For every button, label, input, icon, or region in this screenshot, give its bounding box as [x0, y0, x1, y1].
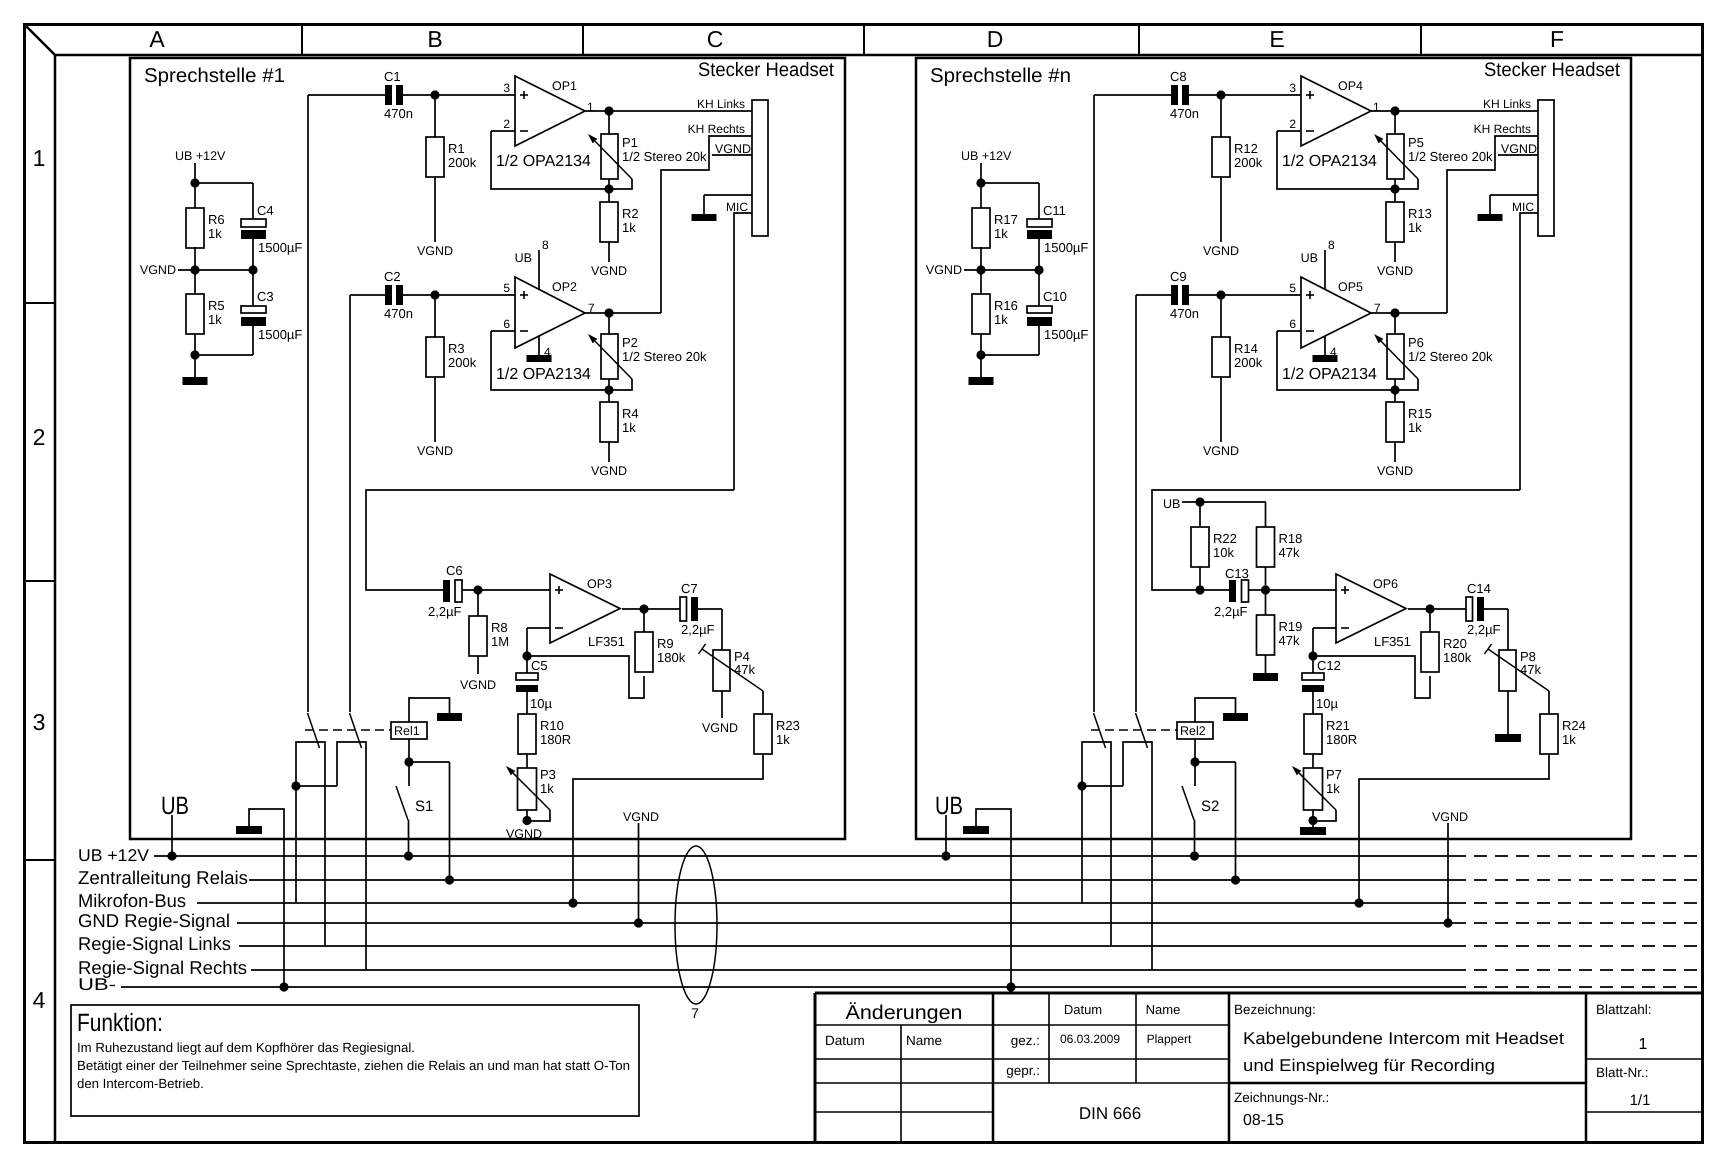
resistor R2: [600, 189, 639, 242]
svg-text:R8: R8: [491, 620, 508, 635]
wire: [350, 290, 515, 712]
svg-text:VGND: VGND: [591, 464, 627, 478]
svg-text:F: F: [1550, 26, 1564, 52]
svg-text:VGND: VGND: [1377, 464, 1413, 478]
svg-text:Zentralleitung Relais: Zentralleitung Relais: [78, 867, 248, 888]
label KH Links: [1483, 97, 1531, 111]
svg-text:C6: C6: [446, 563, 463, 578]
node VGND: [417, 377, 453, 458]
node VGND tie: [623, 810, 659, 928]
capacitor C1: [384, 69, 413, 121]
svg-text:47k: 47k: [1279, 545, 1300, 560]
svg-text:VGND: VGND: [1203, 244, 1239, 258]
wire: [585, 136, 752, 318]
ground: [437, 713, 462, 721]
svg-text:P5: P5: [1408, 135, 1424, 150]
bus GND Regie-Signal: [78, 910, 1700, 931]
svg-text:2: 2: [33, 424, 46, 450]
node UB: [1163, 497, 1266, 511]
op-amp OP4: [1282, 76, 1380, 170]
svg-text:C4: C4: [257, 203, 274, 218]
svg-text:VGND: VGND: [715, 142, 751, 156]
wire: [1371, 136, 1538, 318]
svg-text:R16: R16: [994, 298, 1018, 313]
node UB +12V: [961, 149, 1012, 188]
wire: [434, 95, 436, 137]
node VGND: [1377, 442, 1413, 478]
svg-text:3: 3: [33, 709, 46, 735]
potentiometer P6: [1374, 313, 1493, 390]
svg-text:B: B: [427, 26, 442, 52]
svg-text:6: 6: [503, 317, 510, 331]
svg-text:OP1: OP1: [552, 79, 577, 93]
node UB: [935, 792, 963, 861]
svg-text:1/2 OPA2134: 1/2 OPA2134: [1282, 366, 1377, 383]
svg-text:C3: C3: [257, 289, 274, 304]
title col Datum: [1064, 1002, 1102, 1017]
ground: [1223, 713, 1248, 721]
connector headset: [1538, 100, 1554, 236]
svg-text:1k: 1k: [622, 420, 636, 435]
node VGND: [506, 827, 542, 841]
title DIN 666: [1079, 1104, 1141, 1123]
wire: [491, 331, 632, 395]
svg-text:OP2: OP2: [552, 280, 577, 294]
svg-text:OP5: OP5: [1338, 280, 1363, 294]
label Stecker Headset: [698, 59, 835, 81]
svg-text:Kabelgebundene Intercom mit He: Kabelgebundene Intercom mit Headset: [1243, 1029, 1564, 1048]
svg-text:C9: C9: [1170, 269, 1187, 284]
svg-text:R2: R2: [622, 206, 639, 221]
svg-text:2,2µF: 2,2µF: [1214, 604, 1248, 619]
svg-text:VGND: VGND: [1501, 142, 1537, 156]
svg-text:180R: 180R: [540, 732, 571, 747]
svg-text:R23: R23: [776, 718, 800, 733]
wire: [308, 90, 515, 712]
svg-text:47k: 47k: [734, 662, 755, 677]
resistor R16: [972, 294, 1018, 334]
svg-text:Datum: Datum: [825, 1033, 865, 1048]
svg-text:C1: C1: [384, 69, 401, 84]
svg-text:Datum: Datum: [1064, 1002, 1102, 1017]
svg-text:C5: C5: [531, 658, 548, 673]
svg-text:P2: P2: [622, 335, 638, 350]
wire: [190, 326, 253, 377]
relay contact 2 Rel2: [1123, 713, 1152, 970]
svg-text:KH Links: KH Links: [697, 97, 745, 111]
wire MIC to amp: [366, 490, 734, 590]
svg-text:DIN 666: DIN 666: [1079, 1104, 1141, 1123]
svg-text:VGND: VGND: [417, 444, 453, 458]
wire: [1077, 781, 1123, 790]
svg-text:UB: UB: [1163, 497, 1180, 511]
potentiometer P4: [699, 644, 764, 691]
wire: [1308, 628, 1430, 698]
node UB +12V: [175, 149, 226, 188]
switch S1: [396, 762, 433, 861]
label MIC: [726, 200, 748, 214]
svg-text:R15: R15: [1408, 406, 1432, 421]
node VGND: [140, 263, 258, 277]
svg-text:1k: 1k: [622, 220, 636, 235]
title block grid: [815, 993, 1703, 1143]
svg-text:OP3: OP3: [587, 577, 612, 591]
relay contact 1 Rel1: [296, 713, 325, 946]
label Stecker Headset: [1484, 59, 1621, 81]
title row Name: [906, 1033, 942, 1048]
capacitor C14: [1466, 581, 1501, 637]
wire: [1277, 131, 1418, 194]
svg-text:1/2 OPA2134: 1/2 OPA2134: [496, 366, 591, 383]
wire: [1220, 95, 1222, 137]
svg-text:R20: R20: [1443, 636, 1467, 651]
svg-text:UB: UB: [515, 251, 532, 265]
wire: [1190, 739, 1240, 885]
svg-text:Blattzahl:: Blattzahl:: [1596, 1002, 1652, 1017]
wire: [568, 754, 763, 908]
connector headset: [752, 100, 768, 236]
row ticks: [24, 303, 55, 860]
svg-text:UB +12V: UB +12V: [78, 846, 150, 865]
svg-text:1k: 1k: [1326, 781, 1340, 796]
svg-text:VGND: VGND: [926, 263, 962, 277]
title name Plappert: [1147, 1032, 1192, 1046]
svg-text:C12: C12: [1317, 658, 1341, 673]
svg-text:R9: R9: [657, 636, 674, 651]
svg-text:1k: 1k: [1408, 420, 1422, 435]
capacitor C10: [1027, 289, 1088, 342]
wire: [1220, 295, 1222, 337]
svg-text:200k: 200k: [1234, 155, 1263, 170]
svg-text:Änderungen: Änderungen: [846, 1002, 963, 1024]
svg-text:1M: 1M: [491, 634, 509, 649]
title row Datum: [825, 1033, 865, 1048]
svg-text:Funktion:: Funktion:: [77, 1009, 163, 1037]
svg-text:Zeichnungs-Nr.:: Zeichnungs-Nr.:: [1234, 1090, 1329, 1105]
node VGND: [1203, 177, 1239, 258]
title gepr: [1006, 1063, 1040, 1078]
capacitor C12: [1302, 656, 1341, 714]
potentiometer P8: [1485, 644, 1550, 691]
svg-text:1500µF: 1500µF: [258, 327, 302, 342]
svg-text:470n: 470n: [384, 106, 413, 121]
svg-text:KH Links: KH Links: [1483, 97, 1531, 111]
svg-text:6: 6: [1289, 317, 1296, 331]
svg-text:R13: R13: [1408, 206, 1432, 221]
node VGND: [591, 442, 627, 478]
svg-text:1/2 Stereo 20k: 1/2 Stereo 20k: [1408, 149, 1493, 164]
svg-text:Sprechstelle #n: Sprechstelle #n: [930, 65, 1071, 87]
svg-text:KH Rechts: KH Rechts: [1474, 122, 1531, 136]
wire: [1136, 290, 1301, 712]
note line 3: [77, 1076, 204, 1091]
svg-text:200k: 200k: [1234, 355, 1263, 370]
wire: [409, 698, 450, 722]
svg-text:1500µF: 1500µF: [1044, 240, 1088, 255]
wire: [1195, 698, 1236, 722]
station box Sprechstelle #n: [916, 58, 1631, 839]
label Sprechstelle #1: [144, 65, 285, 87]
svg-text:OP4: OP4: [1338, 79, 1363, 93]
op-amp OP1: [496, 76, 594, 170]
op-amp OP3: [550, 574, 625, 649]
svg-text:VGND: VGND: [1377, 264, 1413, 278]
svg-text:1/2 Stereo 20k: 1/2 Stereo 20k: [622, 149, 707, 164]
svg-text:1k: 1k: [208, 312, 222, 327]
svg-text:C13: C13: [1225, 566, 1249, 581]
svg-text:R5: R5: [208, 298, 225, 313]
resistor R13: [1386, 189, 1432, 242]
wire: [976, 326, 1039, 377]
wire: [1484, 609, 1508, 650]
potentiometer P3: [506, 754, 556, 825]
title sheets 1: [1639, 1036, 1648, 1053]
svg-text:470n: 470n: [1170, 306, 1199, 321]
node VGND: [417, 177, 453, 258]
label Sprechstelle #n: [930, 65, 1071, 87]
svg-text:gepr.:: gepr.:: [1006, 1063, 1040, 1078]
svg-text:Betätigt einer der Teilnehmer: Betätigt einer der Teilnehmer seine Spre…: [77, 1058, 630, 1073]
svg-text:S2: S2: [1201, 798, 1219, 815]
svg-text:C2: C2: [384, 269, 401, 284]
svg-text:UB: UB: [935, 792, 963, 820]
capacitor C2: [384, 269, 413, 321]
svg-text:1/2 OPA2134: 1/2 OPA2134: [496, 153, 591, 170]
svg-text:1k: 1k: [208, 226, 222, 241]
resistor R21: [1304, 714, 1357, 754]
svg-text:OP6: OP6: [1373, 577, 1398, 591]
capacitor C6: [428, 563, 463, 619]
ground: [183, 377, 208, 385]
wire MIC: [734, 213, 752, 490]
label KH Links: [697, 97, 745, 111]
svg-text:4: 4: [33, 987, 46, 1013]
resistor R22: [1191, 502, 1237, 595]
svg-text:UB +12V: UB +12V: [175, 149, 226, 163]
potentiometer P7: [1292, 754, 1342, 825]
wire: [195, 183, 253, 219]
svg-text:1/2 OPA2134: 1/2 OPA2134: [1282, 153, 1377, 170]
resistor R17: [972, 208, 1018, 248]
wire: [981, 239, 1039, 306]
svg-text:180R: 180R: [1326, 732, 1357, 747]
svg-text:5: 5: [503, 281, 510, 295]
node VGND: [591, 242, 627, 278]
svg-text:470n: 470n: [1170, 106, 1199, 121]
title 1/1: [1630, 1092, 1651, 1109]
svg-text:1k: 1k: [540, 781, 554, 796]
svg-text:1k: 1k: [776, 732, 790, 747]
svg-text:C10: C10: [1043, 289, 1067, 304]
wire: [1354, 754, 1549, 908]
wire MIC to amp: [1152, 490, 1520, 590]
svg-text:200k: 200k: [448, 155, 477, 170]
svg-text:Regie-Signal Links: Regie-Signal Links: [78, 933, 231, 954]
relay contact 2 Rel1: [337, 713, 366, 970]
ground: [1300, 821, 1326, 835]
svg-text:Plappert: Plappert: [1147, 1032, 1192, 1046]
svg-text:UB: UB: [161, 792, 189, 820]
svg-text:Blatt-Nr.:: Blatt-Nr.:: [1596, 1065, 1649, 1080]
resistor R18: [1257, 502, 1303, 595]
svg-text:VGND: VGND: [623, 810, 659, 824]
capacitor C13: [1214, 566, 1249, 619]
resistor R6: [186, 208, 225, 248]
svg-text:Sprechstelle #1: Sprechstelle #1: [144, 65, 285, 87]
svg-text:2: 2: [503, 117, 510, 131]
svg-text:VGND: VGND: [140, 263, 176, 277]
svg-text:8: 8: [1328, 238, 1335, 252]
svg-text:P3: P3: [540, 767, 556, 782]
svg-text:R12: R12: [1234, 141, 1258, 156]
svg-text:Stecker Headset: Stecker Headset: [698, 59, 835, 81]
svg-text:P1: P1: [622, 135, 638, 150]
capacitor C4: [241, 203, 302, 255]
svg-text:VGND: VGND: [417, 244, 453, 258]
svg-text:VGND: VGND: [1203, 444, 1239, 458]
op-amp OP5: [1282, 277, 1381, 383]
power pin 4 OP5: [1313, 336, 1338, 362]
svg-text:1/2 Stereo 20k: 1/2 Stereo 20k: [622, 349, 707, 364]
resistor R12: [1212, 137, 1263, 177]
bus UB-: [78, 975, 1700, 994]
svg-text:47k: 47k: [1279, 633, 1300, 648]
resistor R1: [426, 137, 477, 177]
function note box: [71, 1005, 639, 1116]
wire: [981, 183, 1039, 219]
svg-text:3: 3: [1289, 81, 1296, 95]
svg-text:R21: R21: [1326, 718, 1350, 733]
svg-text:1: 1: [1639, 1036, 1648, 1053]
power pin 8 UB OP2: [515, 238, 549, 289]
potentiometer P2: [588, 313, 707, 390]
svg-text:P6: P6: [1408, 335, 1424, 350]
svg-text:UB: UB: [1301, 251, 1318, 265]
potentiometer P5: [1374, 111, 1493, 189]
svg-text:1: 1: [1373, 100, 1380, 114]
op-amp OP6: [1336, 574, 1411, 649]
svg-text:R19: R19: [1279, 619, 1303, 634]
svg-text:MIC: MIC: [1512, 200, 1534, 214]
wire: [462, 585, 550, 616]
svg-text:200k: 200k: [448, 355, 477, 370]
svg-text:2,2µF: 2,2µF: [1467, 622, 1501, 637]
resistor R23: [754, 691, 800, 754]
capacitor C8: [1170, 69, 1199, 121]
bus Zentralleitung Relais: [78, 867, 1700, 888]
ground UB-: [236, 809, 289, 992]
node VGND pin: [712, 142, 752, 156]
svg-text:R17: R17: [994, 212, 1018, 227]
label MIC: [1512, 200, 1534, 214]
bus Regie-Signal Rechts: [78, 957, 1700, 978]
op-amp OP2: [496, 277, 595, 383]
node VGND: [1203, 377, 1239, 458]
svg-text:1k: 1k: [1562, 732, 1576, 747]
svg-text:Im Ruhezustand liegt auf dem K: Im Ruhezustand liegt auf dem Kopfhörer d…: [77, 1040, 415, 1055]
wire: [195, 239, 253, 306]
svg-text:1500µF: 1500µF: [258, 240, 302, 255]
station box Sprechstelle #1: [130, 58, 845, 839]
resistor R9: [635, 609, 686, 672]
wire linkage dashed: [305, 729, 391, 731]
resistor R24: [1540, 691, 1586, 754]
svg-text:10µ: 10µ: [530, 696, 552, 711]
svg-text:R4: R4: [622, 406, 639, 421]
svg-text:und Einspielweg für Recording: und Einspielweg für Recording: [1243, 1056, 1495, 1075]
svg-text:1/1: 1/1: [1630, 1092, 1651, 1109]
wire linkage dashed: [1091, 729, 1177, 731]
node VGND: [460, 656, 496, 692]
svg-text:C7: C7: [681, 581, 698, 596]
svg-text:LF351: LF351: [588, 634, 625, 649]
svg-text:Name: Name: [1146, 1002, 1181, 1017]
note line 2: [77, 1058, 630, 1073]
node UB: [161, 792, 189, 861]
node VGND pin: [1498, 142, 1538, 156]
svg-text:VGND: VGND: [702, 721, 738, 735]
title Zeichnungs-Nr: [1234, 1090, 1329, 1105]
resistor R20: [1421, 609, 1472, 672]
ground UB-: [963, 809, 1016, 992]
wire: [491, 131, 632, 194]
wire: [434, 295, 436, 337]
title Bezeichnung: [1234, 1002, 1316, 1017]
svg-text:UB-: UB-: [78, 975, 116, 994]
note line 1: [77, 1040, 415, 1055]
svg-text:7: 7: [691, 1005, 699, 1021]
wire: [622, 604, 680, 613]
wire: [1371, 106, 1538, 115]
wire: [522, 628, 644, 698]
svg-text:R10: R10: [540, 718, 564, 733]
capacitor C11: [1027, 203, 1088, 255]
svg-text:Name: Name: [906, 1033, 942, 1048]
title text 2: [1243, 1056, 1495, 1075]
svg-text:VGND: VGND: [1432, 810, 1468, 824]
svg-text:10µ: 10µ: [1316, 696, 1338, 711]
wire: [1200, 589, 1336, 591]
svg-text:LF351: LF351: [1374, 634, 1411, 649]
node VGND: [702, 691, 738, 735]
svg-text:KH Rechts: KH Rechts: [688, 122, 745, 136]
bus UB +12V: [78, 846, 1700, 865]
wire: [698, 609, 722, 650]
svg-text:den Intercom-Betrieb.: den Intercom-Betrieb.: [77, 1076, 204, 1091]
wire MIC: [1520, 213, 1538, 490]
column ticks: [302, 24, 1421, 55]
title Blattzahl: [1596, 1002, 1652, 1017]
svg-text:Rel2: Rel2: [1180, 724, 1206, 738]
svg-text:UB +12V: UB +12V: [961, 149, 1012, 163]
svg-text:R1: R1: [448, 141, 465, 156]
svg-text:P7: P7: [1326, 767, 1342, 782]
svg-text:E: E: [1269, 26, 1284, 52]
wire: [291, 781, 337, 790]
row labels 1-4: [33, 145, 46, 1013]
svg-text:R22: R22: [1213, 531, 1237, 546]
svg-text:R3: R3: [448, 341, 465, 356]
title Blatt-Nr: [1596, 1065, 1649, 1080]
svg-text:R18: R18: [1279, 531, 1303, 546]
svg-text:R24: R24: [1562, 718, 1586, 733]
wire: [1277, 331, 1418, 395]
svg-text:VGND: VGND: [460, 678, 496, 692]
svg-text:1: 1: [33, 145, 46, 171]
title col Name: [1146, 1002, 1181, 1017]
switch S2: [1182, 762, 1219, 861]
svg-text:47k: 47k: [1520, 662, 1541, 677]
